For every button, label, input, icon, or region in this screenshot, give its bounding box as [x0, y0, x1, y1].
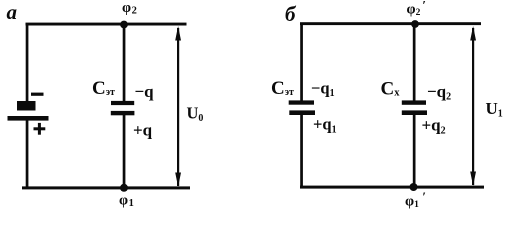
charge label +q (bottom plate) [133, 121, 153, 140]
svg-text:+q: +q [133, 121, 153, 140]
node φ1 label [119, 193, 134, 210]
wire left-lower (battery branch, circuit a) [26, 120, 29, 189]
svg-text:−q1: −q1 [311, 78, 335, 99]
svg-text:−q2: −q2 [427, 82, 451, 103]
svg-text:б: б [285, 2, 297, 26]
capacitor Cx bottom plate [402, 110, 427, 115]
svg-text:Cx: Cx [381, 79, 401, 100]
charge label -q2 [427, 82, 451, 103]
capacitor Cэт lower lead (circuit b, left branch) [300, 114, 303, 189]
value label Cэт (circuit b) [271, 78, 294, 99]
capacitor Cэт top plate (circuit a) [111, 101, 134, 105]
svg-text:φ2′: φ2′ [407, 0, 426, 18]
svg-text:φ1: φ1 [119, 193, 134, 210]
value label Cэт (circuit a) [92, 78, 115, 99]
node φ2 label [122, 0, 137, 17]
battery GB1 negative short plate [17, 101, 36, 111]
svg-text:φ2: φ2 [122, 0, 137, 17]
voltage arrow U0 (double-headed) [175, 26, 181, 187]
capacitor Cэт bottom plate (circuit b) [289, 110, 315, 115]
wire bottom horizontal (circuit b) [300, 186, 484, 189]
node φ1' label [405, 189, 426, 210]
capacitor Cэт bottom lead (circuit a) [123, 114, 126, 188]
battery GB1 plus sign [34, 123, 46, 135]
svg-text:Cэт: Cэт [92, 78, 115, 99]
svg-text:Cэт: Cэт [271, 78, 294, 99]
charge label -q (top plate) [135, 82, 155, 101]
wire top-left horizontal (circuit a) [26, 23, 187, 26]
svg-text:а: а [7, 0, 18, 24]
svg-text:−q: −q [135, 82, 155, 101]
circuit label б [285, 2, 297, 26]
svg-text:φ1′: φ1′ [405, 189, 426, 210]
capacitor Cэт upper lead (circuit b, left branch) [300, 23, 303, 102]
svg-text:U1: U1 [486, 99, 503, 120]
capacitor Cэт bottom plate (circuit a) [111, 111, 135, 115]
battery GB1 minus sign [31, 93, 44, 96]
wire top horizontal (circuit b) [300, 22, 481, 25]
junction dot node φ1' [410, 183, 418, 191]
svg-text:+q2: +q2 [422, 116, 446, 137]
capacitor Cx top lead [413, 24, 416, 102]
junction dot node φ2 [120, 21, 128, 29]
charge label -q1 [311, 78, 335, 99]
svg-text:+q1: +q1 [313, 115, 337, 136]
battery GB1 positive long plate [8, 116, 49, 121]
node φ2' label [407, 0, 426, 18]
value label U1 [486, 99, 503, 120]
circuit label а [7, 0, 18, 24]
value label U0 [187, 103, 204, 124]
junction dot node φ1 [120, 184, 128, 192]
svg-text:U0: U0 [187, 103, 204, 124]
value label Cx [381, 79, 401, 100]
wire bottom horizontal (circuit a) [22, 186, 190, 189]
junction dot node φ2' [411, 20, 419, 28]
capacitor Cэт top lead (circuit a) [123, 24, 126, 102]
charge label +q2 [422, 116, 446, 137]
voltage arrow U1 (double-headed) [470, 26, 476, 186]
capacitor Cx top plate [402, 100, 426, 104]
wire left-upper (battery branch, circuit a) [26, 23, 29, 103]
charge label +q1 [313, 115, 337, 136]
capacitor Cx bottom lead [413, 114, 416, 188]
capacitor Cэт top plate (circuit b) [289, 100, 314, 104]
